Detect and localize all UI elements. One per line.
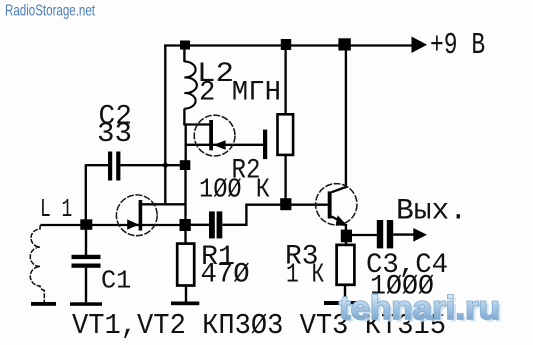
wire output node to C3C4 <box>349 234 377 236</box>
wire L2 top drop <box>183 45 185 62</box>
transistor VT2 channel bar <box>209 120 213 150</box>
transistor VT2 circle <box>194 115 235 156</box>
junction R2-base node <box>280 198 291 210</box>
resistor R1 box <box>177 244 194 286</box>
junction L1-C1-gate node <box>80 219 92 230</box>
wire node vertical between junctions <box>184 165 186 244</box>
svg-text:1 К: 1 К <box>286 261 324 291</box>
svg-text:33: 33 <box>97 119 132 150</box>
transistor VT2 gate arrow <box>213 140 225 149</box>
ground C1 <box>70 302 102 306</box>
wire C2 left lead <box>86 164 108 166</box>
transistor VT1 channel bar <box>139 200 143 231</box>
inductor L1 <box>30 225 44 302</box>
svg-text:Вых.: Вых. <box>396 195 467 229</box>
svg-text:RadioStorage.net: RadioStorage.net <box>5 3 95 20</box>
transistor VT3 base bar <box>328 191 332 218</box>
output arrow <box>413 228 427 242</box>
wire C2 left vertical down to L1 node <box>85 164 87 225</box>
resistor R2 box <box>278 114 294 155</box>
capacitor C2 plates <box>108 152 112 181</box>
capacitor plate at VT2 output <box>263 130 267 160</box>
wire C2 right lead to node <box>120 164 181 166</box>
wire R3 bottom lead <box>344 285 346 301</box>
wire C1 top lead <box>85 225 87 255</box>
transistor VT1 circle <box>116 195 157 236</box>
svg-text:L 1: L 1 <box>40 194 72 224</box>
junction VT1 source node <box>180 219 191 231</box>
wire L2 tail <box>183 109 185 125</box>
capacitor coupling plates <box>209 211 215 238</box>
resistor R3 box <box>337 245 355 285</box>
capacitor C1 plates <box>72 255 101 259</box>
wire emitter to output node <box>345 224 347 232</box>
ground L1 <box>31 302 56 306</box>
junction small dot at drain wire crossing <box>163 163 168 168</box>
wire VT2 gate line through transistor to cap <box>186 144 264 146</box>
wire input node line L1 to VT1 <box>41 224 182 226</box>
wire R2 bottom lead <box>284 155 286 204</box>
svg-text:tehnari.ru: tehnari.ru <box>339 289 500 326</box>
junction VT2 gate node <box>180 160 191 170</box>
junction rail-R2 <box>281 39 291 50</box>
wire VT1 drain lead <box>141 203 186 205</box>
capacitor C3 C4 plates <box>377 220 383 248</box>
wire R2 top drop from rail <box>284 45 286 114</box>
transistor VT1 gate arrow <box>127 219 139 229</box>
wire R3 top lead <box>345 239 347 245</box>
ground R3 <box>324 301 361 305</box>
transistor VT3 circle <box>316 184 357 225</box>
wire VT3 emitter <box>332 217 343 223</box>
inductor L2 <box>184 62 196 109</box>
wire rail left corner down to VT1 drain <box>164 46 166 205</box>
wire VT2 left vertical (L2 to node) <box>185 125 187 167</box>
junction rail-VT3 collector <box>338 38 350 50</box>
svg-text:C1: C1 <box>101 266 131 296</box>
wire coupling cap left lead <box>190 224 209 226</box>
wire VT2 drain lead <box>183 123 210 125</box>
arrow VT3 emitter <box>336 215 348 226</box>
svg-text:1ØØ К: 1ØØ К <box>199 176 270 206</box>
svg-text:+9 В: +9 В <box>430 28 485 63</box>
wire VT3 collector drop <box>332 45 346 192</box>
wire C3C4 to output arrow <box>393 233 414 235</box>
node +9V rail <box>164 44 413 46</box>
svg-text:47Ø: 47Ø <box>201 260 250 291</box>
wire coupling cap right lead <box>222 205 327 225</box>
power arrow +9V <box>412 37 428 54</box>
ground R1 <box>171 302 199 306</box>
junction rail-L2 <box>180 41 190 50</box>
wire C1 bottom lead <box>85 268 87 303</box>
wire R1 bottom lead <box>185 286 187 302</box>
junction emitter-R3-output <box>341 230 352 243</box>
svg-text:2 МГН: 2 МГН <box>199 78 281 109</box>
